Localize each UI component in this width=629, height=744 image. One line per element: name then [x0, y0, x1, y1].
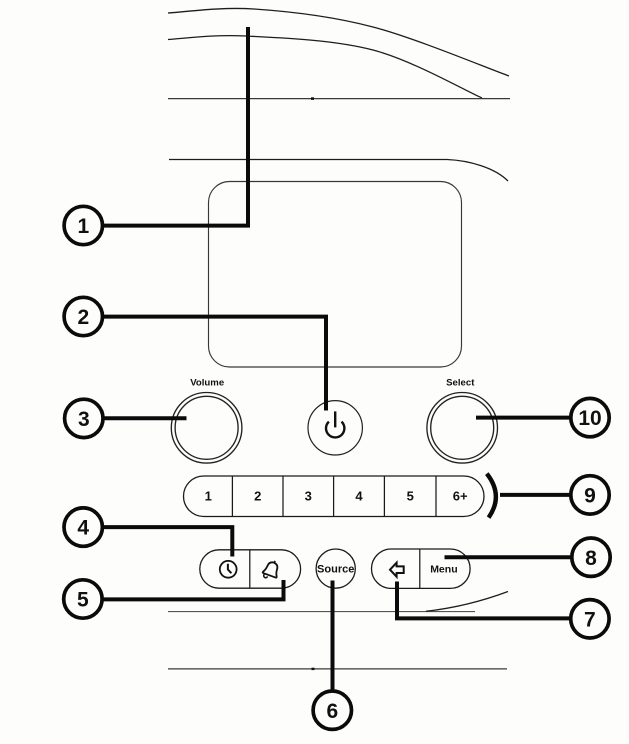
svg-text:7: 7: [584, 608, 596, 631]
svg-text:Volume: Volume: [190, 378, 224, 389]
svg-text:6: 6: [326, 700, 338, 723]
svg-text:3: 3: [305, 488, 312, 503]
svg-text:Select: Select: [446, 378, 475, 389]
svg-text:2: 2: [77, 306, 89, 329]
svg-text:6+: 6+: [453, 488, 468, 503]
svg-text:5: 5: [77, 589, 89, 612]
svg-text:Source: Source: [317, 564, 354, 576]
svg-text:1: 1: [77, 215, 89, 238]
svg-text:4: 4: [77, 517, 89, 540]
svg-text:3: 3: [78, 408, 90, 431]
svg-text:1: 1: [205, 488, 212, 503]
svg-text:9: 9: [584, 485, 596, 508]
svg-text:4: 4: [355, 488, 363, 503]
svg-text:2: 2: [254, 488, 261, 503]
svg-text:8: 8: [585, 547, 597, 570]
svg-text:10: 10: [578, 407, 601, 430]
svg-text:5: 5: [407, 488, 414, 503]
svg-text:Menu: Menu: [430, 563, 457, 575]
